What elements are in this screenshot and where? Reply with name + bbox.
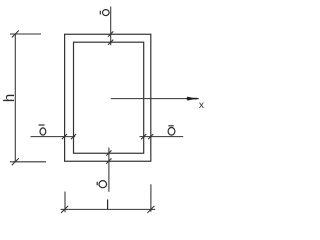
svg-text:x: x: [199, 100, 204, 111]
x axis line: [111, 98, 199, 100]
l right tick: [147, 206, 154, 213]
left delta leader line: [31, 136, 76, 138]
h top extension line: [10, 33, 41, 35]
right delta symbol: [168, 126, 175, 135]
bottom delta dimension line: [108, 148, 110, 192]
left delta symbol: [39, 125, 46, 135]
top delta tick on inner edge: [108, 40, 113, 45]
left delta tick on inner wall: [71, 134, 76, 139]
left delta tick on outer wall: [62, 134, 67, 139]
svg-text:h: h: [1, 94, 18, 102]
top delta dimension line: [110, 7, 112, 46]
label l: [107, 199, 109, 209]
h top tick: [12, 31, 19, 38]
l left extension line: [64, 192, 66, 213]
l left tick: [61, 206, 68, 213]
x axis arrowhead: [187, 97, 196, 101]
h bottom tick: [12, 158, 19, 165]
top delta symbol (rotated): [100, 10, 109, 16]
right delta tick on outer wall: [148, 134, 153, 139]
inner rectangle of hollow section: [74, 42, 144, 153]
l right extension line: [150, 184, 152, 212]
l dimension line: [61, 208, 156, 210]
h dimension line: [14, 34, 16, 163]
outer rectangle of hollow section: [65, 34, 151, 161]
bottom delta tick on outer edge: [106, 158, 111, 163]
h bottom extension line: [10, 161, 46, 163]
top delta tick on outer edge: [108, 31, 113, 36]
bottom delta tick on inner edge: [106, 150, 111, 155]
bottom delta symbol (rotated): [97, 181, 106, 188]
right delta leader line: [140, 136, 184, 138]
right delta tick on inner wall: [141, 134, 146, 139]
